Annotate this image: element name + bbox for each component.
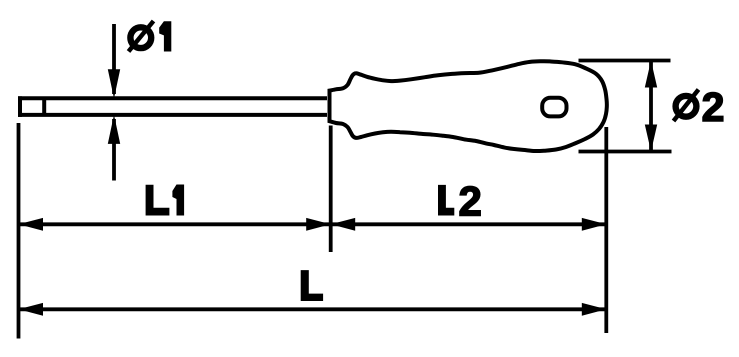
- svg-text:2: 2: [702, 84, 725, 130]
- svg-text:2: 2: [459, 177, 482, 224]
